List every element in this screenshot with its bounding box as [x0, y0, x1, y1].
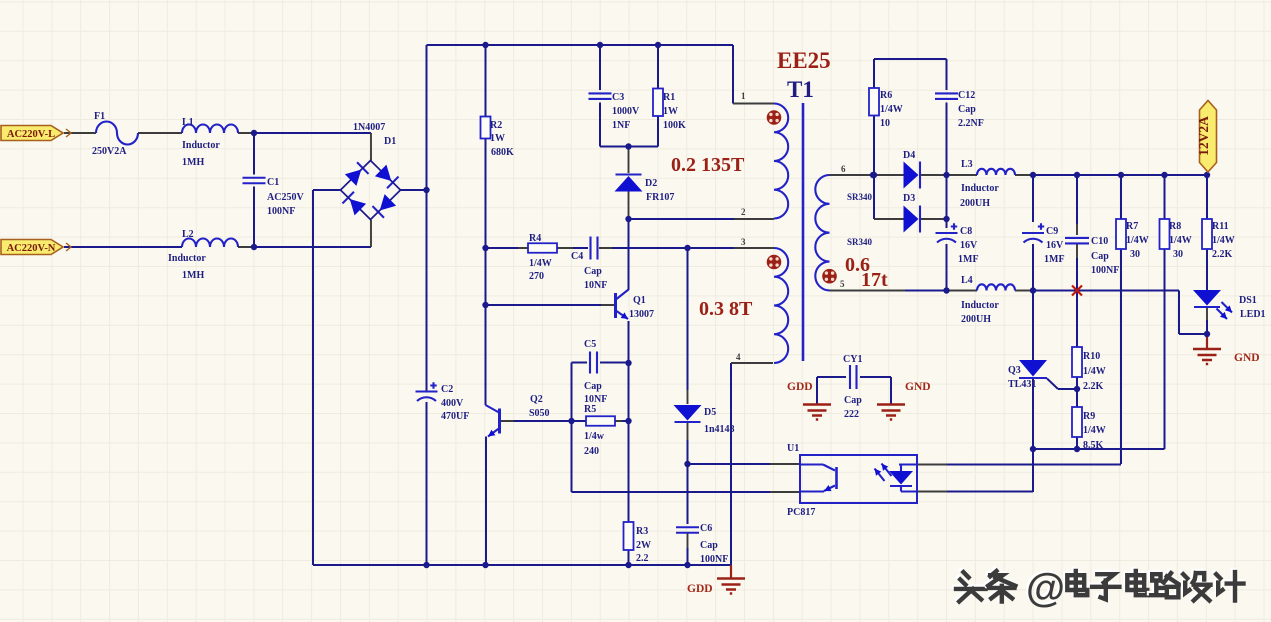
- svg-text:C5: C5: [584, 339, 596, 350]
- svg-text:16V: 16V: [1046, 240, 1064, 251]
- svg-text:8.5K: 8.5K: [1083, 440, 1104, 451]
- svg-text:1/4W: 1/4W: [1169, 235, 1192, 246]
- svg-text:R4: R4: [529, 233, 541, 244]
- svg-text:GND: GND: [905, 381, 931, 393]
- svg-text:R9: R9: [1083, 411, 1095, 422]
- svg-text:1NF: 1NF: [612, 120, 630, 131]
- svg-text:1/4W: 1/4W: [1126, 235, 1149, 246]
- svg-text:C6: C6: [700, 523, 712, 534]
- svg-text:Inductor: Inductor: [168, 253, 206, 264]
- svg-text:R3: R3: [636, 526, 648, 537]
- svg-text:C1: C1: [267, 177, 279, 188]
- svg-text:AC250V: AC250V: [267, 192, 304, 203]
- svg-text:PC817: PC817: [787, 507, 815, 518]
- svg-text:2W: 2W: [636, 540, 651, 551]
- svg-text:L3: L3: [961, 159, 973, 170]
- svg-text:SR340: SR340: [847, 192, 873, 202]
- svg-text:1W: 1W: [663, 106, 678, 117]
- svg-text:1MH: 1MH: [182, 157, 204, 168]
- svg-text:R10: R10: [1083, 351, 1100, 362]
- svg-text:222: 222: [844, 409, 859, 420]
- svg-text:1MF: 1MF: [958, 254, 979, 265]
- svg-text:F1: F1: [94, 111, 105, 122]
- svg-text:R5: R5: [584, 404, 596, 415]
- svg-text:2: 2: [741, 207, 746, 217]
- svg-text:100NF: 100NF: [267, 206, 295, 217]
- svg-text:GDD: GDD: [687, 583, 713, 595]
- svg-text:D3: D3: [903, 193, 915, 204]
- svg-text:0.3 8T: 0.3 8T: [699, 298, 753, 320]
- svg-text:Cap: Cap: [958, 104, 976, 115]
- svg-text:5: 5: [840, 279, 845, 289]
- svg-text:100NF: 100NF: [1091, 265, 1119, 276]
- svg-text:Cap: Cap: [584, 381, 602, 392]
- svg-text:Q3: Q3: [1008, 365, 1021, 376]
- svg-text:250V2A: 250V2A: [92, 146, 127, 157]
- svg-text:Q1: Q1: [633, 295, 646, 306]
- svg-text:FR107: FR107: [646, 192, 674, 203]
- svg-text:30: 30: [1130, 249, 1140, 260]
- svg-text:10NF: 10NF: [584, 280, 607, 291]
- svg-text:R7: R7: [1126, 221, 1138, 232]
- svg-text:Inductor: Inductor: [182, 140, 220, 151]
- svg-text:100NF: 100NF: [700, 554, 728, 565]
- svg-text:1/4W: 1/4W: [1212, 235, 1235, 246]
- svg-text:R1: R1: [663, 92, 675, 103]
- svg-text:C9: C9: [1046, 226, 1058, 237]
- svg-text:D5: D5: [704, 407, 716, 418]
- svg-text:Cap: Cap: [844, 395, 862, 406]
- svg-text:12V2A: 12V2A: [1196, 116, 1211, 156]
- svg-text:LED1: LED1: [1240, 309, 1266, 320]
- svg-text:AC220V-L: AC220V-L: [7, 129, 55, 140]
- svg-text:C12: C12: [958, 90, 975, 101]
- svg-text:2.2K: 2.2K: [1083, 381, 1104, 392]
- svg-text:1n4148: 1n4148: [704, 424, 735, 435]
- svg-text:10: 10: [880, 118, 890, 129]
- svg-text:Inductor: Inductor: [961, 183, 999, 194]
- svg-text:GND: GND: [1234, 352, 1260, 364]
- svg-text:3: 3: [741, 237, 746, 247]
- svg-text:GDD: GDD: [787, 381, 813, 393]
- svg-text:R6: R6: [880, 90, 892, 101]
- svg-text:L2: L2: [182, 229, 194, 240]
- svg-text:1MF: 1MF: [1044, 254, 1065, 265]
- svg-text:680K: 680K: [491, 147, 514, 158]
- svg-text:R8: R8: [1169, 221, 1181, 232]
- svg-text:U1: U1: [787, 443, 799, 454]
- svg-text:C4: C4: [571, 251, 583, 262]
- svg-text:1N4007: 1N4007: [353, 122, 385, 133]
- svg-text:CY1: CY1: [843, 354, 862, 365]
- svg-text:2.2K: 2.2K: [1212, 249, 1233, 260]
- svg-text:240: 240: [584, 446, 599, 457]
- svg-text:C8: C8: [960, 226, 972, 237]
- svg-text:1/4W: 1/4W: [1083, 425, 1106, 436]
- svg-text:@: @: [1026, 566, 1065, 610]
- svg-text:DS1: DS1: [1239, 295, 1257, 306]
- svg-text:Inductor: Inductor: [961, 300, 999, 311]
- svg-text:1MH: 1MH: [182, 270, 204, 281]
- svg-text:Cap: Cap: [584, 266, 602, 277]
- svg-text:16V: 16V: [960, 240, 978, 251]
- svg-text:200UH: 200UH: [961, 314, 991, 325]
- svg-text:Cap: Cap: [1091, 251, 1109, 262]
- svg-text:L4: L4: [961, 275, 973, 286]
- svg-text:6: 6: [841, 164, 846, 174]
- svg-text:Q2: Q2: [530, 394, 543, 405]
- svg-text:EE25: EE25: [777, 48, 831, 73]
- svg-text:AC220V-N: AC220V-N: [7, 243, 56, 254]
- svg-text:C10: C10: [1091, 236, 1108, 247]
- svg-text:C2: C2: [441, 384, 453, 395]
- svg-text:30: 30: [1173, 249, 1183, 260]
- svg-text:400V: 400V: [441, 398, 464, 409]
- svg-text:4: 4: [736, 352, 741, 362]
- svg-text:1/4w: 1/4w: [584, 431, 605, 442]
- svg-text:R2: R2: [490, 120, 502, 131]
- svg-text:1/4W: 1/4W: [880, 104, 903, 115]
- svg-text:200UH: 200UH: [960, 198, 990, 209]
- svg-text:1/4W: 1/4W: [1083, 366, 1106, 377]
- svg-text:1W: 1W: [490, 133, 505, 144]
- svg-text:1: 1: [741, 91, 746, 101]
- svg-text:C3: C3: [612, 92, 624, 103]
- svg-text:1000V: 1000V: [612, 106, 640, 117]
- svg-text:SR340: SR340: [847, 237, 873, 247]
- svg-text:TL431: TL431: [1008, 379, 1036, 390]
- svg-text:13007: 13007: [629, 309, 654, 320]
- svg-text:R11: R11: [1212, 221, 1229, 232]
- svg-text:470UF: 470UF: [441, 411, 469, 422]
- svg-text:Cap: Cap: [700, 540, 718, 551]
- svg-text:1/4W: 1/4W: [529, 258, 552, 269]
- svg-text:S050: S050: [529, 408, 550, 419]
- svg-text:L1: L1: [182, 117, 194, 128]
- svg-text:0.2 135T: 0.2 135T: [671, 154, 745, 176]
- svg-text:2.2NF: 2.2NF: [958, 118, 984, 129]
- svg-text:17t: 17t: [861, 269, 888, 291]
- svg-text:2.2: 2.2: [636, 553, 649, 564]
- svg-text:D1: D1: [384, 136, 396, 147]
- svg-text:T1: T1: [787, 77, 814, 102]
- svg-text:D4: D4: [903, 150, 915, 161]
- svg-text:270: 270: [529, 271, 544, 282]
- svg-text:D2: D2: [645, 178, 657, 189]
- svg-text:100K: 100K: [663, 120, 686, 131]
